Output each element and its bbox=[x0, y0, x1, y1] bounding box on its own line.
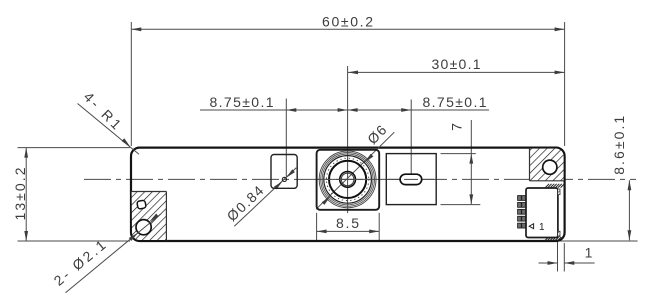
svg-text:1: 1 bbox=[585, 245, 593, 261]
svg-text:8.6±0.1: 8.6±0.1 bbox=[611, 116, 627, 175]
svg-text:30±0.1: 30±0.1 bbox=[432, 56, 481, 72]
svg-text:8.75±0.1: 8.75±0.1 bbox=[210, 94, 274, 110]
svg-text:1: 1 bbox=[539, 222, 545, 233]
svg-text:8.75±0.1: 8.75±0.1 bbox=[423, 94, 487, 110]
svg-text:8.5: 8.5 bbox=[336, 215, 359, 231]
svg-text:7: 7 bbox=[449, 123, 465, 131]
svg-text:60±0.2: 60±0.2 bbox=[322, 13, 373, 29]
